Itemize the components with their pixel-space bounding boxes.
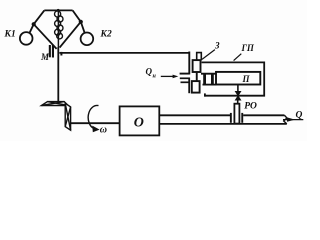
spool bottom land	[192, 81, 200, 93]
inlet arrow Qn	[161, 75, 174, 77]
ball K2	[81, 33, 94, 46]
svg-text:К2: К2	[100, 30, 112, 40]
port right stub	[211, 75, 214, 85]
gland bowtie	[235, 91, 242, 101]
svg-text:З: З	[214, 41, 220, 51]
channel top	[201, 73, 216, 75]
bevel gear top plate	[42, 102, 69, 106]
svg-text:М: М	[40, 52, 50, 62]
left pivot node	[32, 22, 36, 26]
body upper-left lip	[180, 73, 190, 75]
body lower-left lip B	[181, 81, 191, 83]
object box O	[120, 106, 160, 135]
governor shaft	[57, 47, 59, 102]
svg-text:ГП: ГП	[241, 43, 255, 53]
svg-text:РО: РО	[244, 102, 257, 112]
governor top bar	[44, 9, 72, 11]
sleeve M right jaw	[52, 45, 54, 58]
spring rod	[57, 10, 59, 47]
spool top land	[193, 60, 201, 72]
body lower-left wall	[188, 78, 190, 94]
svg-text:П: П	[242, 74, 251, 84]
pipe top line left segment	[159, 114, 230, 116]
callout ГП	[234, 54, 242, 61]
flow arrow Q	[283, 119, 303, 121]
node top center	[57, 9, 60, 12]
body lower-left lip A	[180, 77, 190, 79]
ball K1	[20, 32, 33, 45]
channel bottom	[203, 84, 217, 86]
link to ball K2	[81, 22, 85, 34]
servo box GP outline	[202, 62, 265, 95]
port left stub	[203, 75, 206, 85]
svg-text:Q: Q	[296, 111, 303, 121]
svg-text:ω: ω	[100, 125, 107, 136]
valve RO gate	[234, 104, 239, 124]
svg-text:О: О	[134, 116, 144, 131]
left lower arm	[34, 24, 57, 49]
right pivot node	[79, 20, 83, 24]
rotation arc omega	[88, 105, 98, 128]
bottom stub	[204, 93, 206, 96]
svg-text:К1: К1	[4, 30, 16, 40]
spool stem fork	[197, 53, 202, 61]
right lower arm	[60, 22, 81, 48]
rotation arrowhead	[92, 126, 99, 133]
right upper arm	[73, 10, 81, 21]
spool stem	[196, 72, 198, 81]
lever to spool	[59, 52, 189, 54]
cylinder	[216, 72, 260, 85]
valve RO right flange	[241, 113, 243, 123]
sleeve M left jaw	[49, 45, 51, 57]
body upper-left wall	[188, 52, 190, 75]
piston rod	[237, 84, 239, 91]
link to ball K1	[29, 24, 33, 33]
svg-text:Q: Q	[146, 67, 153, 77]
valve stem	[237, 100, 239, 104]
pipe top line right segment	[243, 114, 284, 116]
left upper arm	[34, 10, 45, 24]
valve RO left flange	[230, 113, 232, 123]
drive shaft	[71, 122, 120, 124]
callout З	[202, 50, 215, 60]
bevel gear vertical wheel	[65, 103, 70, 130]
spring coils	[55, 11, 64, 39]
pipe bottom line	[159, 123, 286, 125]
pipe break	[284, 115, 287, 124]
